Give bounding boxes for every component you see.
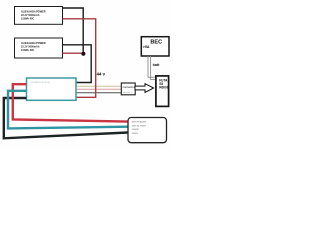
servo wire ESC->connector (tan) (77, 85, 122, 87)
svg-text:channel 3: channel 3 (123, 92, 133, 94)
wire: BT2 positive (red) to series junction (63, 52, 84, 54)
receiver RX1 (FUTABA) (156, 76, 169, 107)
svg-text:ALIEN HIGH POWER: ALIEN HIGH POWER (21, 10, 46, 13)
svg-text:ALIEN HIGH POWER: ALIEN HIGH POWER (21, 42, 46, 45)
wire: BT1 positive (red) to ESC right side (63, 19, 96, 98)
battery BT1 (15, 7, 63, 25)
label batt (153, 63, 161, 67)
arrow: connector to receiver (135, 84, 154, 93)
motor wire black: ESC left to motor (4, 98, 128, 138)
wire: BT1 negative (black) down to series junction (63, 8, 84, 54)
motor wire teal: ESC left to motor (8, 91, 128, 129)
svg-text:22.2V 5000mAh: 22.2V 5000mAh (21, 14, 40, 17)
svg-text:22.2V 5000mAh: 22.2V 5000mAh (21, 45, 40, 48)
motor wire red: ESC left to motor (13, 84, 128, 121)
svg-text:PHOENIX ICE 85 HV: PHOENIX ICE 85 HV (31, 82, 51, 84)
connector J1 (throttle lead plug) (121, 83, 137, 95)
battery BT2 (15, 38, 63, 58)
servo wire ESC->connector (pink/red) (77, 88, 122, 90)
svg-text:44 v: 44 v (97, 71, 106, 76)
svg-text:500KW: 500KW (132, 129, 139, 131)
BEC battery lead wire 1 (gray) (148, 56, 156, 77)
BEC U2 (141, 37, 169, 56)
motor M1 (label box) (128, 118, 167, 143)
svg-text:R6008: R6008 (159, 86, 169, 90)
wire: BT2 negative (black) to ESC right side (63, 45, 92, 83)
BEC battery lead wire 2 (gray) (151, 56, 156, 80)
svg-text:batt: batt (153, 63, 161, 67)
junction node (series link dot) (81, 52, 85, 56)
svg-text:600KV: 600KV (132, 133, 139, 135)
svg-text:>5A: >5A (143, 45, 150, 49)
svg-text:115Wh 40C: 115Wh 40C (21, 49, 34, 52)
label 44 v (97, 71, 106, 76)
ESC U1 (speed controller) (27, 78, 77, 100)
svg-text:115Wh 40C: 115Wh 40C (21, 17, 34, 20)
servo wire ESC->connector (dark) (77, 92, 122, 94)
svg-text:4035 BL 780W: 4035 BL 780W (132, 125, 146, 127)
svg-text:BEC: BEC (150, 40, 162, 46)
